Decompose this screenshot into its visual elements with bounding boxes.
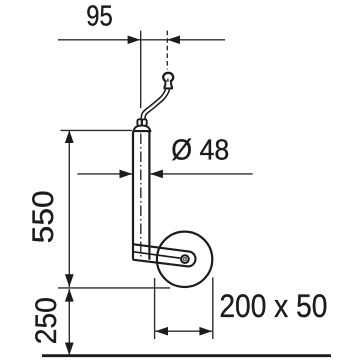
hub center bolt: [183, 257, 187, 261]
arrow 95 right: [167, 36, 180, 45]
svg-text:Ø 48: Ø 48: [171, 135, 229, 167]
dimension line 200x50: [155, 330, 212, 332]
tube centerline dash-dot: [140, 134, 142, 262]
clevis nub left: [137, 119, 141, 125]
hub: [181, 255, 189, 263]
dimension line 550: [68, 131, 70, 287]
arrow 550 top: [65, 130, 74, 143]
swivel dome cap: [134, 125, 151, 131]
extension line tube axis: [140, 31, 142, 108]
extension line wheel bottom shared: [58, 287, 170, 289]
clevis nub right: [142, 119, 147, 125]
arrow 95 left: [128, 36, 141, 45]
wheel: [157, 232, 212, 287]
svg-text:200 x 50: 200 x 50: [219, 288, 327, 324]
extension line crank axis dashed: [166, 31, 168, 70]
arrow 250 bottom: [65, 343, 74, 356]
extension line wheel left: [154, 278, 156, 339]
knob neck: [165, 81, 173, 89]
swing arm: [133, 244, 196, 266]
svg-text:95: 95: [86, 1, 113, 33]
svg-text:250: 250: [30, 297, 63, 344]
svg-text:550: 550: [27, 190, 60, 243]
crank rod: [143, 89, 168, 122]
dimension line 250: [68, 289, 70, 355]
swing arm seam: [133, 252, 180, 259]
extension line wheel right: [212, 277, 214, 339]
arrow Ø48 right: [150, 170, 163, 179]
ground line: [42, 354, 331, 357]
knob center tick: [167, 79, 169, 82]
arrow 550 bottom: [65, 274, 74, 287]
dimension line Ø48 left tail: [78, 173, 133, 175]
arrow 250 top: [65, 289, 74, 302]
dimension line Ø48 right tail: [150, 173, 252, 175]
knob ball: [163, 73, 173, 82]
arrow Ø48 left: [120, 170, 133, 179]
dimension line 95: [58, 39, 225, 41]
arrow 200x50 right: [199, 327, 212, 336]
tube body: [133, 131, 149, 260]
arrow 200x50 left: [155, 327, 168, 336]
extension line tube top: [61, 129, 133, 131]
